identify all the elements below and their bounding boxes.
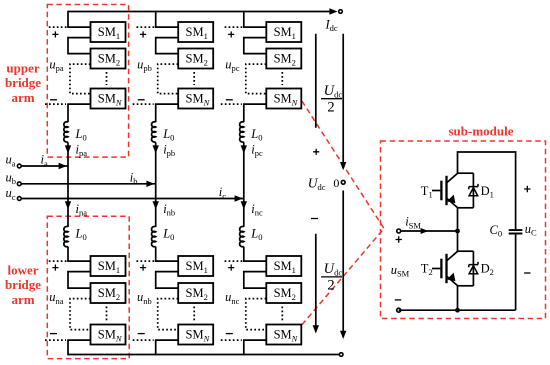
dotted wire SM2-SMN continuation (upper arm b)	[158, 64, 179, 94]
svg-text:ina: ina	[76, 202, 88, 218]
svg-text:arm: arm	[11, 292, 34, 307]
polarity plus upper arm b	[140, 31, 146, 37]
svg-text:D1: D1	[481, 184, 494, 200]
wire inductor to AC node (phase b)	[155, 143, 157, 184]
svg-text:sub-module: sub-module	[448, 124, 513, 139]
svg-text:lower: lower	[7, 263, 38, 278]
svg-text:SM2: SM2	[186, 286, 208, 302]
submodule SM1 upper arm phase b	[178, 22, 213, 42]
svg-text:upper: upper	[6, 61, 39, 76]
wire phase c leg from DC+ rail	[243, 11, 245, 27]
current arrow i_b	[146, 181, 154, 187]
inductor L0 lower arm phase c	[240, 226, 244, 246]
svg-text:ia: ia	[41, 153, 48, 169]
terminal u_a	[17, 164, 21, 168]
wire phase c AC input	[22, 198, 244, 200]
polarity plus DC midpoint	[313, 149, 319, 155]
submodule SMN upper arm phase b	[178, 89, 213, 109]
current arrow I_dc	[329, 8, 337, 14]
diode D2	[469, 262, 478, 267]
polarity minus u_SM	[395, 299, 401, 301]
submodule SM2 lower arm phase c	[266, 283, 301, 303]
node midpoint junction	[455, 229, 460, 234]
submodule SM1 lower arm phase c	[266, 256, 301, 276]
polarity minus lower arm b	[138, 333, 145, 335]
svg-text:ipc: ipc	[251, 142, 263, 158]
dotted leader plus (upper arm b)	[137, 26, 155, 28]
node bottom rail junction	[455, 308, 460, 313]
diode D1	[469, 184, 478, 189]
wire SM1 top connection (upper arm a)	[67, 26, 90, 28]
wire SMN bottom connection (upper arm b)	[155, 103, 178, 105]
submodule SM2 upper arm phase a	[91, 49, 126, 69]
svg-text:SMN: SMN	[274, 328, 299, 344]
wire T1 emitter to midpoint node	[457, 208, 459, 251]
current arrow i_nb	[153, 201, 159, 209]
inductor L0 upper arm phase a	[64, 122, 68, 142]
dotted leader minus (lower arm b)	[133, 339, 154, 341]
wire phase a leg from DC+ rail	[67, 11, 69, 27]
wire SMN bottom connection (lower arm b)	[155, 339, 178, 341]
polarity plus lower arm c	[228, 265, 234, 271]
ellipsis dots between SM2 and SMN (lower arm a)	[106, 307, 108, 322]
svg-text:L0: L0	[250, 227, 262, 243]
svg-text:ipa: ipa	[76, 142, 88, 158]
bracket line lower U_dc/2 left	[315, 234, 317, 332]
svg-text:ub: ub	[6, 171, 17, 187]
wire SM1-SM2 series link (lower arm b)	[156, 272, 179, 289]
terminal sub-module input	[397, 229, 401, 233]
svg-text:SMN: SMN	[186, 92, 211, 108]
dotted wire SM2-SMN continuation (upper arm c)	[246, 64, 266, 94]
submodule SMN lower arm phase c	[266, 325, 301, 345]
wire sub-module top rail	[458, 152, 516, 230]
wire phase a AC input	[22, 165, 69, 167]
wire lower arm leg to DC- rail (phase a)	[67, 340, 69, 355]
dashed outline upper bridge arm (phase a)	[47, 5, 128, 158]
current arrow i_na	[65, 201, 71, 209]
dotted leader plus (upper arm c)	[225, 26, 243, 28]
svg-text:uC: uC	[525, 222, 537, 238]
inductor L0 lower arm phase a	[64, 226, 68, 246]
wire emitter junction to diode branch (T2)	[458, 285, 474, 287]
ellipsis dots between SM2 and SMN (lower arm c)	[281, 307, 283, 322]
wire SM1 top connection (lower arm c)	[243, 260, 266, 262]
svg-text:bridge: bridge	[5, 75, 41, 90]
wire top DC rail	[68, 11, 330, 13]
terminal 0 DC midpoint	[341, 180, 345, 184]
svg-text:L0: L0	[75, 127, 87, 143]
current arrow i_SM	[421, 228, 429, 234]
svg-text:SM1: SM1	[98, 259, 120, 275]
dashed outline lower bridge arm (phase a)	[47, 216, 129, 358]
svg-text:inc: inc	[251, 202, 263, 218]
svg-text:Udc: Udc	[324, 261, 343, 278]
submodule SM2 upper arm phase b	[178, 49, 213, 69]
current arrow i_a	[59, 163, 67, 169]
dotted leader plus (lower arm a)	[49, 260, 67, 262]
diode branch wire (T2)	[472, 251, 474, 286]
svg-text:ic: ic	[219, 185, 226, 201]
svg-text:SM2: SM2	[98, 52, 120, 68]
svg-text:upc: upc	[225, 57, 240, 73]
wire emitter junction to diode branch (T1)	[458, 207, 474, 209]
svg-text:SMN: SMN	[274, 92, 299, 108]
polarity plus upper arm a	[52, 31, 58, 37]
current arrow i_nc	[241, 201, 247, 209]
wire AC node to lower inductor (phase c)	[243, 199, 245, 227]
wire phase b AC input	[22, 183, 156, 185]
wire SM1 top connection (upper arm b)	[155, 26, 178, 28]
svg-text:SM2: SM2	[186, 52, 208, 68]
svg-text:upa: upa	[49, 57, 64, 73]
wire collector junction to diode branch (T2)	[458, 250, 474, 252]
dotted leader minus (upper arm c)	[221, 103, 242, 105]
submodule SM1 lower arm phase b	[178, 256, 213, 276]
wire SMN bottom connection (upper arm a)	[67, 103, 90, 105]
wire AC node to lower inductor (phase a)	[67, 166, 69, 227]
submodule SM1 lower arm phase a	[91, 256, 126, 276]
polarity minus upper arm c	[226, 99, 233, 101]
wire upper arm leg to inductor (phase b)	[155, 104, 157, 122]
svg-text:unb: unb	[137, 290, 152, 306]
dotted leader plus (lower arm c)	[225, 260, 243, 262]
dotted leader plus (lower arm b)	[137, 260, 155, 262]
voltage arrow upper U_dc/2	[342, 34, 344, 168]
wire SM1-SM2 series link (upper arm b)	[156, 38, 179, 54]
voltage arrow lower U_dc/2	[342, 191, 344, 338]
svg-text:L0: L0	[75, 227, 87, 243]
wire collector junction to diode branch (T1)	[458, 172, 474, 174]
wire upper arm leg to inductor (phase c)	[243, 104, 245, 122]
wire T2 emitter to bottom rail	[457, 286, 459, 310]
svg-text:T1: T1	[421, 184, 433, 200]
svg-text:iSM: iSM	[405, 215, 421, 231]
submodule SM1 upper arm phase c	[266, 22, 301, 42]
svg-text:inb: inb	[163, 202, 175, 218]
wire SM1 top connection (upper arm c)	[243, 26, 266, 28]
svg-text:uc: uc	[6, 186, 16, 202]
polarity minus lower arm a	[50, 333, 57, 335]
ellipsis dots between SM2 and SMN (upper arm a)	[106, 72, 108, 85]
svg-text:L0: L0	[250, 127, 262, 143]
wire SM1 top connection (lower arm b)	[155, 260, 178, 262]
svg-text:SM1: SM1	[274, 25, 296, 41]
dotted leader plus (upper arm a)	[49, 26, 67, 28]
svg-text:SM1: SM1	[186, 259, 208, 275]
inductor L0 lower arm phase b	[152, 226, 156, 246]
terminal u_b	[17, 182, 21, 186]
wire AC node to lower inductor (phase b)	[155, 184, 157, 227]
submodule SMN lower arm phase a	[91, 325, 126, 345]
inductor L0 upper arm phase b	[152, 122, 156, 142]
submodule SM1 upper arm phase a	[91, 22, 126, 42]
wire SM1-SM2 series link (upper arm a)	[68, 38, 91, 54]
terminal u_c	[17, 197, 21, 201]
ellipsis dots between SM2 and SMN (upper arm c)	[281, 72, 283, 85]
wire phase b leg from DC+ rail	[155, 11, 157, 27]
polarity plus upper arm c	[228, 31, 234, 37]
wire SM1-SM2 series link (lower arm a)	[68, 272, 91, 289]
svg-text:Udc: Udc	[308, 175, 326, 192]
wire SMN bottom connection (upper arm c)	[243, 103, 266, 105]
wire SM1-SM2 series link (lower arm c)	[244, 272, 266, 289]
svg-text:SM2: SM2	[274, 52, 296, 68]
svg-text:SM1: SM1	[98, 25, 120, 41]
dotted leader minus (upper arm b)	[133, 103, 154, 105]
submodule SMN upper arm phase a	[91, 89, 126, 109]
submodule SM2 upper arm phase c	[266, 49, 301, 69]
current arrow i_pa	[65, 145, 71, 153]
bracket line upper U_dc/2 left	[315, 34, 317, 128]
svg-text:arm: arm	[11, 90, 34, 105]
wire SM1 top connection (lower arm a)	[67, 260, 90, 262]
wire inductor to SM1 (lower arm a)	[67, 247, 69, 262]
polarity minus upper arm b	[138, 99, 145, 101]
polarity minus DC midpoint	[311, 218, 318, 220]
dotted wire SM2-SMN continuation (lower arm b)	[158, 299, 179, 330]
wire sub-module bottom rail	[399, 309, 516, 311]
dotted wire SM2-SMN continuation (lower arm c)	[246, 299, 266, 330]
wire inductor to AC node (phase c)	[243, 143, 245, 199]
svg-text:2: 2	[327, 100, 334, 116]
diode branch wire (T1)	[472, 173, 474, 208]
svg-text:L0: L0	[162, 127, 174, 143]
svg-text:L0: L0	[162, 227, 174, 243]
wire SMN bottom connection (lower arm a)	[67, 339, 90, 341]
svg-text:una: una	[49, 290, 64, 306]
dashed leader from lower SM_N to sub-module box	[302, 229, 384, 325]
wire upper arm leg to inductor (phase a)	[67, 104, 69, 122]
dashed outline sub-module box	[381, 141, 546, 319]
svg-text:SMN: SMN	[98, 328, 123, 344]
svg-text:uSM: uSM	[391, 263, 410, 279]
wire inductor to SM1 (lower arm b)	[155, 247, 157, 262]
svg-text:SM1: SM1	[186, 25, 208, 41]
polarity plus u_SM	[396, 236, 402, 242]
polarity minus upper arm a	[50, 99, 57, 101]
capacitor C0	[509, 230, 523, 233]
svg-text:SM1: SM1	[274, 259, 296, 275]
svg-text:C0: C0	[490, 223, 503, 239]
polarity minus lower arm c	[226, 333, 233, 335]
dashed leader from upper SM_N to sub-module box	[302, 101, 384, 229]
transistor T2	[445, 254, 447, 283]
submodule SM2 lower arm phase a	[91, 283, 126, 303]
polarity plus capacitor	[524, 186, 530, 192]
transistor T1	[445, 176, 447, 205]
svg-text:T2: T2	[421, 262, 433, 278]
svg-text:SM2: SM2	[98, 286, 120, 302]
submodule SM2 lower arm phase b	[178, 283, 213, 303]
polarity minus capacitor	[524, 272, 530, 274]
svg-text:upb: upb	[137, 57, 152, 73]
current arrow i_c	[235, 195, 243, 201]
current arrow i_pc	[241, 145, 247, 153]
inductor L0 upper arm phase c	[240, 122, 244, 142]
wire inductor to AC node (phase a)	[67, 143, 69, 167]
terminal sub-module return	[397, 308, 401, 312]
svg-text:ua: ua	[6, 153, 16, 169]
dotted wire SM2-SMN continuation (upper arm a)	[70, 64, 91, 94]
terminal DC positive	[339, 10, 343, 14]
wire SM1-SM2 series link (upper arm c)	[244, 38, 266, 54]
svg-text:0: 0	[333, 176, 339, 190]
dotted leader minus (lower arm a)	[45, 339, 66, 341]
svg-text:SMN: SMN	[186, 328, 211, 344]
svg-text:ipb: ipb	[163, 142, 175, 158]
svg-text:ib: ib	[130, 171, 138, 187]
wire SMN bottom connection (lower arm c)	[243, 339, 266, 341]
dotted wire SM2-SMN continuation (lower arm a)	[70, 299, 91, 330]
svg-text:SMN: SMN	[98, 92, 123, 108]
polarity plus lower arm b	[140, 265, 146, 271]
svg-text:bridge: bridge	[5, 277, 41, 292]
wire inductor to SM1 (lower arm c)	[243, 247, 245, 262]
wire lower arm leg to DC- rail (phase b)	[155, 340, 157, 355]
svg-text:2: 2	[327, 278, 334, 294]
wire bottom DC rail	[68, 354, 339, 356]
polarity plus lower arm a	[52, 265, 58, 271]
svg-text:SM2: SM2	[274, 286, 296, 302]
wire sub-module input	[401, 230, 458, 232]
wire lower arm leg to DC- rail (phase c)	[243, 340, 245, 355]
submodule SMN lower arm phase b	[178, 325, 213, 345]
current arrow i_pb	[153, 145, 159, 153]
svg-text:Idc: Idc	[325, 17, 338, 33]
dotted leader minus (upper arm a)	[45, 103, 66, 105]
svg-text:unc: unc	[225, 290, 240, 306]
svg-text:Udc: Udc	[324, 83, 343, 100]
terminal DC negative	[339, 353, 343, 357]
svg-text:D2: D2	[481, 262, 494, 278]
submodule SMN upper arm phase c	[266, 89, 301, 109]
ellipsis dots between SM2 and SMN (upper arm b)	[193, 72, 195, 85]
ellipsis dots between SM2 and SMN (lower arm b)	[193, 307, 195, 322]
dotted leader minus (lower arm c)	[221, 339, 242, 341]
